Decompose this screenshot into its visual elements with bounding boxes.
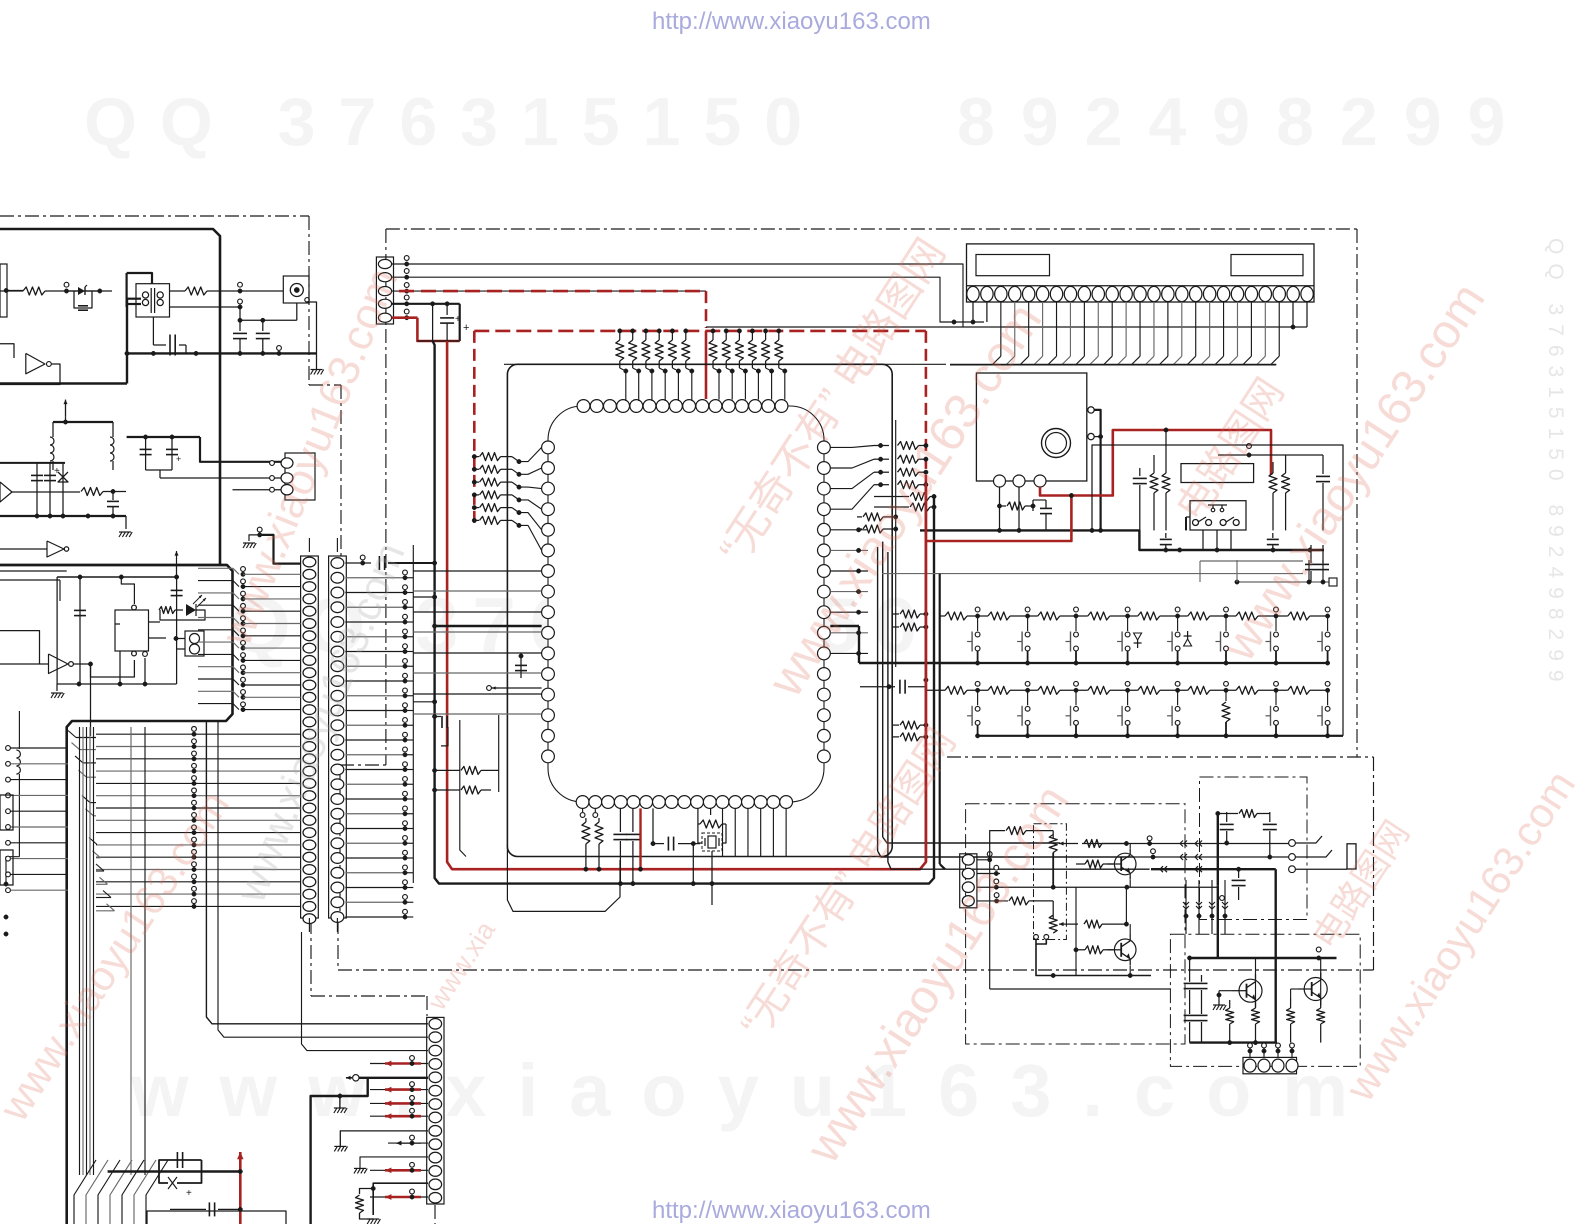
strip CN4 pin1 wire with cap C15 [345,562,371,564]
label box [1181,464,1254,483]
left block thick outline wire [0,229,220,565]
inner black ring [506,363,508,365]
svg-text:+: + [176,454,181,464]
svg-text:http://www.xiaoyu163.com: http://www.xiaoyu163.com [652,8,931,35]
thick bus under pickup [920,530,1324,550]
red main supply vertical [925,483,928,862]
CN5 last pins to long wire [1306,302,1308,327]
op-amp U2B partial [0,482,12,502]
svg-text:+: + [186,1188,192,1199]
cap on lower wire [170,1208,206,1210]
IC bottom components: caps [619,808,621,832]
analog gnd bus [0,515,126,517]
IC U1 bottom pins [576,796,589,809]
p13 wire and resistor to ground [373,1183,428,1215]
inner pot dash box [1034,824,1067,940]
key matrix row1 switches [977,616,979,631]
R to Q1 [1081,843,1083,845]
ground + strip1 pin1 feed [243,542,255,544]
pickup right pin wires [1094,410,1100,531]
caps and resistors near switch [1139,468,1141,476]
supply arrow mid [176,551,178,566]
IC bottom right pin drops [722,808,724,856]
line out bottom bus [1190,1041,1277,1043]
R hp top [1006,827,1026,835]
svg-text:http://www.xiaoyu163.com: http://www.xiaoyu163.com [652,1197,931,1224]
opto sensor box [185,631,204,656]
cap laser [1032,500,1034,511]
CN8 feed buses from left [206,721,428,1024]
pot VR2 [1049,915,1057,933]
line out ground [1213,1004,1225,1006]
red laser supply wire [1040,430,1271,496]
red ring wire [447,341,926,869]
gray corner rectangle [1200,560,1303,562]
key matrix row1 bottom bus [978,662,1328,664]
resistor R laser [1000,505,1007,507]
resistor R-in left [0,290,23,292]
lineout transistor collector wires [1255,974,1257,1003]
IC bottom components: resistors [580,813,585,818]
display connector CN5 outer box [967,244,1315,302]
caps right upper [1310,545,1312,563]
cap C near IC left [520,656,522,678]
ground stub p5 net [338,1094,342,1098]
pot VR1 [1049,835,1057,853]
strip CN4 right wires [345,577,405,579]
CN8 red arrow rows [370,1063,428,1065]
logic bottom bus [57,683,177,685]
resistor R2 [170,290,186,292]
CN7 wires [1249,1043,1251,1058]
black vertical next to red [939,616,941,690]
CN6 pin2 wire [977,873,1000,875]
block border: headphone amp box [966,804,1185,1044]
wire bundle from left block to strips [68,731,76,738]
transistor Q2 [1114,939,1136,961]
left edge component stub [0,264,7,317]
gray line and small term square [1237,581,1329,583]
svg-text:+: + [463,322,469,334]
D-flip-flop U4 box [115,610,149,651]
long vertical wires right of IC [895,420,897,667]
jack top resistor [1218,813,1238,815]
partial box bottom edge [147,1211,286,1224]
IC U1 top pins [577,400,590,413]
electrolytic cap C16 at CN1 [446,304,448,315]
cap C8 [112,492,114,501]
left edge partial boxes [0,795,13,830]
thick black feed to red arrow [108,1170,241,1172]
jack switch hooks [1295,836,1322,843]
U-shaped bus below IC [507,845,620,911]
CN5 pin row [967,285,1315,287]
thick bus into strips area [0,564,227,566]
headphone connector CN6 [960,854,977,908]
ground [51,692,63,694]
optical pickup box [976,373,1086,481]
pull-up resistor bank above IC (right group) [711,329,715,333]
connector strip CN3 (30pin) [301,556,319,918]
inverter U5 [49,654,69,674]
decoupling caps C9 C10 to 3pin connector [145,437,147,470]
svg-text:+: + [455,314,461,325]
jack caps [1226,812,1228,822]
bottom connector CN8 [427,1017,444,1204]
CN1 pin4 wire thick [392,303,460,305]
vertical interconnects to line out [1185,880,1187,934]
key matrix row2 bottom bus [978,735,1328,737]
transistor Q4 [1304,978,1327,1001]
red supply arrow bottom left [239,1152,242,1224]
jack body [1347,844,1356,869]
ground bus wire [127,352,317,354]
switch box SW1 [1190,501,1246,530]
cap C on xtal net [652,808,654,843]
resistor pair to outer ring [874,496,909,498]
mid caps [1238,869,1240,878]
block border: line out box [1170,934,1360,1066]
crystal X1 [697,808,699,818]
supply arrow [65,400,67,417]
left edge terminals column [6,746,11,751]
cap C5 on transformer return [152,317,154,345]
CN5 pin wires down with fan [972,302,974,322]
thick node wire down-left [0,382,127,384]
signal lines to jack [1082,843,1292,845]
CN5 inner label boxes [976,255,1050,276]
inductor on left edge wire [18,711,20,749]
op-amp U2A [26,353,45,373]
block border: left analog section [0,215,309,217]
resistor pair mid right [857,516,862,518]
thin rect wire big right [1092,445,1343,736]
thick bus to key matrix [858,626,860,663]
black line under dashed red top [706,326,1307,328]
IC left side wires to strips area [413,570,541,572]
emitter resistors [1226,1008,1234,1024]
CN1 pin5 wire red [392,317,418,319]
5-pin connector CN1 [376,257,393,324]
block border: main digital section [386,228,1357,230]
resistor pair right rows 9-10 [893,613,899,615]
resistor bank left of IC [472,454,476,458]
black jog bus above IC (under resistor bank) [504,363,946,365]
p11 wire and ground [360,1157,428,1169]
dash-dot stubs at strip tops [308,538,310,556]
pot bottom terminals [1034,935,1039,940]
flow chevrons [1180,841,1183,847]
CN1 pin1 wire [392,264,963,327]
outer black ring wire [433,341,934,884]
resistor R5 [81,488,103,496]
inverter U3 [47,541,64,557]
svg-text:QQ 376315150 892498299: QQ 376315150 892498299 [1544,238,1567,691]
resistors to ring left lower [432,768,436,772]
CN1 pin2 wire [392,277,984,322]
transformer T1 [136,284,170,317]
cap C13 [176,577,178,684]
ground for jack [311,369,323,371]
R to Q2 [1084,920,1102,928]
RCA jack J1 [283,276,309,303]
line out top bus [1190,957,1337,959]
gray top wire [882,573,1303,575]
svg-text:892498299: 892498299 [957,84,1531,160]
cap on right wires [860,686,895,688]
CN6 pin1 wire to volume network [977,859,990,861]
diagonal fan bottom left [74,1160,96,1224]
cap inside ring left [435,716,441,718]
p9 wire and ground [340,1131,428,1147]
resistor pair right rows lower [893,724,899,726]
red wire from IC bottom [639,808,641,869]
pickup bottom pin wires [999,487,1001,530]
connector strip CN4 (25pin) [329,556,347,918]
key matrix row2 switches [977,690,979,705]
3 pin connector CN2 [285,453,315,500]
rows joining black ring [413,596,434,598]
CN6 pin3 wire mid rail [977,886,1218,888]
transistor Q3 [1239,979,1262,1002]
strip CN3 left wires upper rows [198,567,233,569]
red dashed top edge [474,330,926,333]
red branch to laser supply [926,496,1072,542]
resistor bank right of IC rows1-4 [878,443,882,447]
electrolytic + zener cluster [159,1160,202,1172]
strip CN3 left wires lower rows [96,733,301,735]
right side gray pin wires [830,529,868,531]
thick collector wire below CN5 [950,364,1276,366]
terminal node [64,282,69,287]
thick signal with circle terminal [353,1075,359,1081]
IC U1 body [548,406,824,802]
red feed into IC top [705,331,708,399]
key matrix row 1 resistor chain [940,615,945,617]
hp amp bottom bus [1036,944,1151,976]
pickup pins [994,475,1006,487]
terminal nodes before jack [238,282,243,287]
matrix left verticals [939,574,941,616]
pickup lens double circle [1042,429,1071,458]
svg-text:+: + [54,466,60,477]
transistor Q1 [1114,853,1136,875]
CN1 pin3 wire with red dashes (to mechanism) [392,290,706,292]
vertical bus lines under left block [79,727,81,1175]
vertical wire right of strips [412,545,414,883]
logic top rail [57,576,177,578]
thick horizontal digital bus [435,625,542,627]
long thin feed lines far left [0,570,67,572]
svg-text:www.xiaoyu163.com: www.xiaoyu163.com [130,1049,1379,1132]
line out connector CN7 [1243,1057,1297,1073]
terminal arrow into IC left [487,686,492,691]
supply rail with inductors L1 L2 [53,421,113,423]
plain arrow row [388,1142,428,1144]
zener diode D1 with cap [78,287,85,295]
thick wire jack to lineout [1274,869,1276,1042]
resistor R8 and LED D2 [159,607,175,614]
key matrix row 2 resistor chain [925,689,946,691]
cap C12 [79,577,81,684]
filter caps cluster [36,463,38,516]
jack terminals [1289,840,1296,847]
IC U1 left pins [542,441,555,454]
ground sym [119,531,131,533]
IC U1 right pins [818,441,831,454]
CN6 pin4 wire [977,900,1008,902]
svg-text:QQ 376315150: QQ 376315150 [84,84,825,160]
pull-up resistor bank above IC (left group) [618,329,622,333]
block border: headphone jack box [1200,777,1308,920]
switch wires down [1202,530,1204,550]
coupling caps to ground bus [239,307,241,331]
line out caps [1189,975,1191,982]
